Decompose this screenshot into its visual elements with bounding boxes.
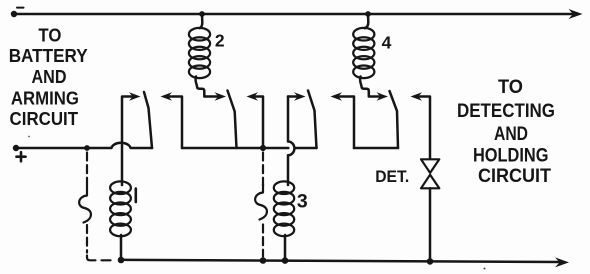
svg-text:TO: TO <box>498 77 523 98</box>
svg-text:4: 4 <box>382 33 392 53</box>
text label: TO DETECTING AND HOLDING CIRCUIT <box>457 77 555 187</box>
terminal dot top left (negative) <box>11 11 17 17</box>
contact bus wire y148 from 182 to 316 with gap at hop <box>182 147 317 150</box>
mechanical link 1 spring squiggle <box>79 186 91 223</box>
bottom return wire <box>121 260 560 262</box>
svg-text:CIRCUIT: CIRCUIT <box>478 166 551 187</box>
positive supply wire with hop over relay1 post <box>16 143 152 148</box>
mechanical link of relay 3: dashed drop from contact bus <box>262 153 264 257</box>
contact blade K4 <box>390 91 399 148</box>
coil L2 (relay 2 winding) <box>189 28 210 78</box>
dust speck <box>484 268 486 270</box>
mechanical link of relay 1: dashed drop from positive wire <box>87 153 111 261</box>
coil L4 (relay 4 winding) <box>353 28 374 78</box>
svg-text:TO: TO <box>38 25 61 46</box>
relay 1 contact post and arm <box>122 97 134 186</box>
contact blade K2 <box>228 91 237 149</box>
coil L2 top lead wire <box>200 14 203 28</box>
label 1 (drawn as bar) <box>135 189 138 203</box>
positive terminal dot <box>13 145 19 151</box>
svg-text:2: 2 <box>215 31 225 51</box>
arm from left arrow to its post at 182 <box>167 97 182 149</box>
svg-text:ARMING: ARMING <box>11 88 79 109</box>
armature arrow of relay 4 contact (points right) <box>377 92 389 100</box>
minus sign polarity label <box>17 7 24 9</box>
svg-text:HOLDING: HOLDING <box>473 146 549 167</box>
coil L4 bottom lead wire to contact arm <box>360 77 379 97</box>
relay 3 contact post with hop over contact bus <box>288 97 294 186</box>
svg-text:3: 3 <box>297 190 308 212</box>
svg-text:BATTERY: BATTERY <box>9 45 89 66</box>
coil L3 bottom lead wire <box>284 235 287 260</box>
node junction dot top bus at coil 4 <box>365 11 371 17</box>
armature arrow of relay 2 contact (points right) <box>215 92 227 100</box>
detector DET symbol (bowtie of two open triangles) <box>421 159 439 188</box>
node junction dot on positive wire (mech link 1) <box>84 145 90 151</box>
node junction dot coil L1 bottom <box>118 257 125 264</box>
svg-text:AND: AND <box>494 124 528 145</box>
top bus wire <box>14 13 575 16</box>
armature arrow pointing left at blade K3 <box>331 92 343 100</box>
coil L4 top lead wire <box>365 14 369 28</box>
mechanical link 3 spring squiggle <box>255 184 267 220</box>
node junction dot detector branch at bottom wire <box>427 258 434 265</box>
node junction dot mech link 3 at bottom wire <box>260 257 267 264</box>
plus sign polarity label <box>17 152 26 161</box>
text label: TO BATTERY AND ARMING CIRCUIT <box>9 25 89 129</box>
contact bus wire 2 y148 from 354 to 398 <box>354 147 398 150</box>
node junction dot top bus at coil 2 <box>199 11 205 17</box>
coil L2 bottom lead wire to contact arm <box>196 77 217 97</box>
armature arrow pointing left at blade K1 <box>161 92 173 100</box>
node junction dot coil L3 bottom <box>282 257 289 264</box>
armature arrow of relay 3 contact (points right) <box>294 92 306 100</box>
armature arrow of relay 1 contact (points right) <box>129 92 141 100</box>
arm from left arrow to post 354 <box>337 97 354 149</box>
wire arrowhead right end of top bus <box>569 9 583 19</box>
coil L1 bottom lead wire <box>120 235 123 260</box>
detector lower lead to bottom wire <box>429 188 432 260</box>
wire arrowhead right end of bottom wire <box>555 257 569 267</box>
coil L3 (relay 3 winding) <box>274 181 294 236</box>
coil L1 (relay 1 winding) <box>110 181 131 236</box>
svg-text:CIRCUIT: CIRCUIT <box>10 108 79 129</box>
relay 3 contact arm <box>288 95 299 98</box>
svg-text:DETECTING: DETECTING <box>457 101 555 122</box>
armature arrow pointing left at blade K2 <box>247 92 259 100</box>
contact blade K1 (rises from positive wire) <box>144 92 152 148</box>
contact blade K3 <box>308 91 317 149</box>
armature arrow pointing left at blade K4 <box>411 92 423 100</box>
svg-text:DET.: DET. <box>375 167 409 186</box>
svg-text:AND: AND <box>32 66 67 87</box>
node junction dot on contact bus (mech link 2) <box>260 145 266 151</box>
arm from left arrow to its post at 263 <box>253 97 263 149</box>
arm from left arrow to detector branch post 430 <box>417 97 430 159</box>
dust speck <box>28 136 30 138</box>
